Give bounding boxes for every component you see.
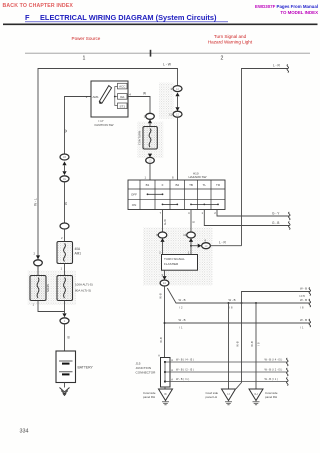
- wire vertical to ground 1 left feed: [228, 303, 230, 389]
- svg-text:panel RH: panel RH: [143, 395, 155, 399]
- L-R riser wire: [242, 69, 288, 246]
- wire hazard TR to G-Y: [217, 210, 289, 217]
- svg-text:AM1: AM1: [93, 95, 100, 99]
- svg-text:2: 2: [221, 56, 224, 62]
- svg-text:B1: B1: [146, 183, 150, 187]
- wire hazard TL to G-B: [204, 210, 289, 226]
- svg-text:A: A: [171, 378, 173, 382]
- battery: [56, 351, 76, 383]
- connector oval above flasher pin2: [158, 232, 167, 238]
- svg-text:W - B: W - B: [300, 318, 307, 322]
- svg-text:IK: IK: [164, 392, 167, 396]
- svg-text:OFF: OFF: [131, 193, 137, 197]
- continuation squiggle G-Y: [289, 212, 291, 220]
- svg-text:A: A: [171, 358, 173, 362]
- ignition lever: [99, 86, 111, 104]
- connector oval above TURN fuse: [146, 113, 155, 119]
- wire W-B bus2: [165, 322, 310, 324]
- svg-text:W: W: [64, 129, 68, 132]
- wire flasher ground: [164, 270, 166, 276]
- wire W-B line A upper: [242, 292, 310, 304]
- connector oval below TURN fuse: [148, 154, 152, 158]
- hazard OFF contact line: [148, 193, 163, 195]
- svg-text:W - B ( I 1 ): W - B ( I 1 ): [176, 377, 189, 381]
- junction to L-R connector: [190, 245, 192, 247]
- ground 0 triangle: [159, 389, 173, 401]
- svg-text:CONNECTOR: CONNECTOR: [136, 371, 157, 375]
- svg-text:W: W: [143, 92, 146, 96]
- svg-text:W - L: W - L: [34, 198, 38, 206]
- wire to AM1 fuse: [64, 182, 66, 223]
- svg-text:Hazard Warning Light: Hazard Warning Light: [208, 40, 253, 45]
- wire to battery: [64, 324, 66, 351]
- continuation squiggle G-B: [289, 222, 291, 230]
- svg-text:JUNCTION: JUNCTION: [136, 366, 152, 370]
- connector oval pair on AM1 feed: [60, 154, 69, 160]
- svg-text:1E: 1E: [63, 177, 66, 181]
- svg-text:W-B: W-B: [236, 341, 240, 347]
- connector oval on left branch: [36, 255, 40, 259]
- svg-text:W - B: W - B: [179, 318, 186, 322]
- wire W-B main drop: [164, 286, 166, 358]
- connector oval above flasher pin1: [187, 232, 196, 238]
- battery ground: [64, 383, 66, 388]
- connector oval below flasher: [162, 276, 166, 280]
- svg-text:FLASHER: FLASHER: [164, 262, 179, 266]
- svg-text:EWD307F Pages From Manual: EWD307F Pages From Manual: [255, 4, 318, 9]
- wire W-B diagonal branch: [167, 288, 309, 303]
- svg-text:ST1: ST1: [120, 104, 126, 108]
- svg-text:AM1: AM1: [75, 252, 82, 256]
- svg-text:W - B: W - B: [179, 298, 186, 302]
- svg-text:40A: 40A: [75, 247, 82, 251]
- fuse 40A AM1: [57, 242, 73, 264]
- header rule: [3, 23, 318, 25]
- svg-text:L - W: L - W: [163, 63, 172, 67]
- svg-text:TL: TL: [203, 183, 207, 187]
- terminal ACC: [118, 83, 128, 89]
- svg-text:IG1: IG1: [120, 95, 125, 99]
- svg-text:HAZARD SW: HAZARD SW: [189, 175, 207, 179]
- title underline: [25, 21, 228, 23]
- section divider line: [25, 52, 310, 54]
- continuation squiggle bus2: [309, 319, 311, 327]
- svg-text:A: A: [171, 368, 173, 372]
- svg-text:W-B: W-B: [250, 341, 254, 347]
- svg-text:W-B: W-B: [159, 337, 163, 343]
- svg-text:E2: E2: [163, 281, 167, 285]
- continuation squiggle bus1: [309, 299, 311, 307]
- svg-text:MAIN: MAIN: [46, 284, 50, 292]
- svg-text:G-W: G-W: [163, 219, 167, 225]
- wire J15 line 2: [165, 371, 287, 373]
- svg-text:W - B ( I 2 - I5 ): W - B ( I 2 - I5 ): [176, 367, 194, 371]
- svg-text:1B: 1B: [63, 155, 66, 159]
- ignition contact bracket: [115, 87, 118, 106]
- fuse 100A ALT: [57, 276, 73, 301]
- wire vertical to ground 2: [255, 303, 257, 389]
- svg-text:W-B: W-B: [159, 293, 163, 299]
- terminal ST1: [118, 103, 128, 109]
- svg-text:W - B: W - B: [300, 298, 307, 302]
- svg-text:ELECTRICAL WIRING DIAGRAM (Sys: ELECTRICAL WIRING DIAGRAM (System Circui…: [40, 13, 217, 22]
- wire J15 to ground 0: [164, 387, 166, 389]
- svg-text:ON: ON: [132, 203, 137, 207]
- wire L-R to riser: [210, 245, 241, 247]
- continuation squiggle L-R: [287, 65, 289, 73]
- wire J15 line 3: [165, 381, 287, 383]
- wire IG1 to TURN fuse: [128, 97, 150, 114]
- svg-text:I 2 I5: I 2 I5: [299, 294, 305, 298]
- junction connector J15 box: [161, 358, 171, 388]
- wire joining MAIN and ALT outputs: [38, 301, 65, 312]
- connector oval L-R: [198, 244, 202, 248]
- svg-text:F: F: [162, 183, 164, 187]
- wire vertical lineA drop to ground 1: [236, 303, 242, 389]
- svg-text:G - Y: G - Y: [272, 212, 280, 216]
- ignition switch I17 box: [91, 81, 128, 117]
- svg-text:1: 1: [83, 56, 86, 62]
- shading strip left of B2 riser connectors: [159, 83, 174, 119]
- connector oval pair on B2 riser: [173, 86, 182, 92]
- continuation squiggle lineA: [309, 288, 311, 296]
- svg-text:W - B ( I 4 - I5 ): W - B ( I 4 - I5 ): [265, 357, 283, 361]
- svg-text:G: G: [191, 221, 195, 223]
- svg-text:panel RH: panel RH: [265, 395, 277, 399]
- svg-text:100A ALT(-S): 100A ALT(-S): [75, 283, 93, 287]
- svg-text:W: W: [64, 202, 68, 205]
- svg-text:BATTERY: BATTERY: [78, 366, 94, 370]
- svg-text:TB: TB: [189, 183, 193, 187]
- terminal IG1: [118, 94, 128, 100]
- ground 2 triangle: [249, 389, 263, 401]
- svg-text:IGNITION SW: IGNITION SW: [95, 123, 114, 127]
- junction dots on bus1: [228, 302, 230, 304]
- section divider tick: [150, 50, 152, 57]
- svg-text:F: F: [25, 13, 30, 22]
- fuse 7.5A TURN: [143, 127, 157, 150]
- svg-text:TURN SIGNAL: TURN SIGNAL: [164, 257, 185, 261]
- shading around turn signal flasher: [143, 228, 213, 286]
- svg-text:BACK TO CHAPTER INDEX: BACK TO CHAPTER INDEX: [3, 3, 74, 9]
- svg-text:W - B ( I 1 ): W - B ( I 1 ): [265, 377, 278, 381]
- svg-text:B: B: [68, 336, 70, 340]
- svg-text:J15: J15: [136, 362, 141, 366]
- svg-text:IH: IH: [255, 392, 258, 396]
- wire ignition AM1 feed: [65, 97, 92, 155]
- connector oval above battery: [62, 313, 66, 317]
- svg-text:W - B ( I 2 - I5 ): W - B ( I 2 - I5 ): [265, 367, 283, 371]
- svg-text:W - B: W - B: [229, 298, 236, 302]
- wire J15 line 1: [165, 361, 287, 363]
- svg-text:7.5A TURN: 7.5A TURN: [138, 131, 142, 145]
- wire hazard TB to flasher connector: [190, 210, 192, 233]
- svg-text:TO MODEL INDEX: TO MODEL INDEX: [280, 10, 318, 15]
- svg-text:G - B: G - B: [272, 221, 279, 225]
- hazard ON contact lines: [163, 203, 178, 205]
- wire fuse to hazard B1: [149, 163, 151, 180]
- svg-text:L - R: L - R: [219, 241, 226, 245]
- fuse MAIN fusible link: [30, 276, 46, 301]
- svg-text:334: 334: [20, 429, 29, 435]
- svg-text:Power Source: Power Source: [72, 36, 101, 41]
- wire riser to hazard B2: [177, 117, 179, 180]
- svg-text:80A ALT(-S): 80A ALT(-S): [75, 289, 91, 293]
- svg-text:L - R: L - R: [273, 63, 280, 67]
- wire AM1 fuse to ALT fuse: [64, 264, 66, 276]
- hazard switch table: [128, 180, 225, 210]
- svg-text:W - B: W - B: [300, 287, 307, 291]
- svg-text:ACC: ACC: [119, 85, 126, 89]
- shading around MAIN and ALT fuses: [28, 271, 77, 306]
- svg-text:Turn Signal and: Turn Signal and: [214, 34, 247, 39]
- svg-text:A: A: [158, 354, 160, 358]
- wire hazard F to flasher connector: [162, 210, 164, 233]
- ground 1 triangle: [222, 389, 236, 401]
- wire top bus L-W from left corner to B2 riser: [38, 69, 178, 276]
- shading relay block around TURN fuse: [138, 122, 164, 159]
- svg-text:W - B ( I 4 - I5 ): W - B ( I 4 - I5 ): [176, 357, 194, 361]
- svg-text:B2: B2: [175, 183, 179, 187]
- svg-text:panel LH: panel LH: [206, 395, 218, 399]
- connector oval above AM1 fuse: [60, 223, 69, 229]
- turn signal flasher box: [162, 255, 198, 271]
